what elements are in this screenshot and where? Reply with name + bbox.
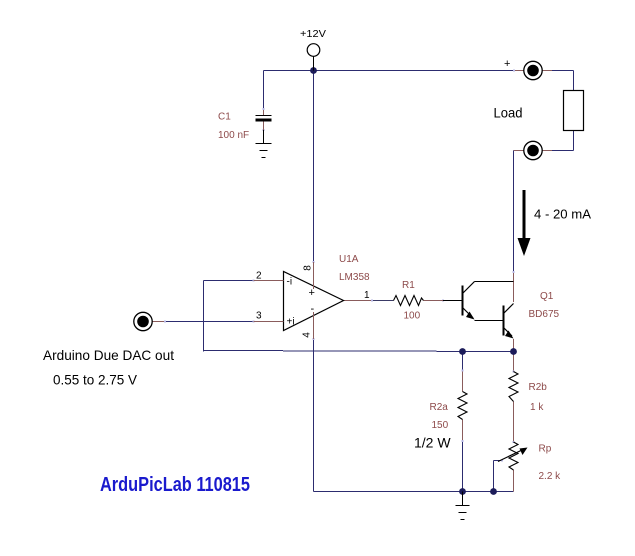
svg-text:BD675: BD675 [529, 309, 560, 320]
wire op-amp output to R1 [344, 300, 394, 302]
junction node emitter / R2b [510, 348, 517, 355]
junction node R2a / ground rail [459, 488, 466, 495]
svg-text:ArduPicLab 110815: ArduPicLab 110815 [100, 474, 250, 496]
title ArduPicLab 110815 [100, 474, 250, 496]
svg-text:8: 8 [302, 265, 313, 271]
wire load minus terminal to collector [514, 151, 525, 303]
svg-text:+: + [504, 58, 510, 70]
svg-text:-i: -i [287, 277, 293, 288]
resistor R2b [509, 372, 547, 414]
svg-text:R1: R1 [402, 280, 415, 291]
svg-text:LM358: LM358 [339, 272, 370, 283]
node label Arduino Due DAC out [43, 347, 174, 363]
wire top rail +12V [264, 70, 525, 72]
terminal load plus [504, 58, 542, 80]
wire bottom ground rail [314, 491, 514, 493]
pin 8 label [302, 265, 313, 271]
svg-text:1: 1 [364, 290, 370, 301]
ground (bottom rail) [456, 492, 470, 520]
resistor R1 [394, 280, 444, 322]
wire input to pin 3 [153, 321, 254, 323]
wire emitter to feedback node [513, 339, 515, 352]
pin 2 label [256, 271, 262, 282]
svg-text:Q1: Q1 [540, 291, 554, 302]
wire C1 drop [263, 71, 265, 116]
wire +12V rail to op-amp pin 8 [313, 71, 315, 263]
node label 0.55 to 2.75 V [53, 372, 138, 388]
arrow 4-20 mA [518, 190, 592, 256]
svg-text:100 nF: 100 nF [218, 130, 249, 141]
wire load plus terminal right [542, 71, 574, 91]
svg-text:1 k: 1 k [530, 402, 544, 413]
potentiometer Rp [498, 442, 561, 482]
svg-text:Load: Load [494, 105, 523, 121]
junction node R2a / feedback [459, 348, 466, 355]
wire Rp wiper to ground rail [494, 461, 503, 492]
transistor Q1 (Darlington pair) [443, 282, 560, 339]
terminal input DAC [134, 312, 152, 330]
resistor R2a [414, 392, 467, 451]
svg-text:R2a: R2a [430, 402, 449, 413]
pin 4 label [302, 332, 313, 338]
svg-text:4 - 20 mA: 4 - 20 mA [534, 207, 591, 222]
wire op-amp pin 4 to ground rail [313, 339, 315, 492]
wire Rp bottom [513, 470, 515, 492]
svg-text:+12V: +12V [300, 29, 326, 40]
ground (C1) [256, 130, 272, 158]
terminal load minus [524, 141, 542, 159]
svg-text:Rp: Rp [539, 444, 552, 455]
svg-text:150: 150 [432, 420, 449, 431]
svg-text:2.2 k: 2.2 k [539, 471, 562, 482]
svg-text:Arduino Due DAC out: Arduino Due DAC out [43, 347, 174, 363]
wire load bottom [542, 131, 574, 151]
svg-text:2: 2 [256, 271, 262, 282]
svg-text:4: 4 [302, 332, 313, 338]
op-amp U1A [254, 262, 344, 339]
pin 1 label [364, 290, 370, 301]
pin tick marks [164, 70, 515, 462]
svg-text:0.55 to 2.75 V: 0.55 to 2.75 V [53, 372, 138, 388]
power terminal +12V [300, 29, 326, 71]
junction node at +12V rail [310, 67, 317, 74]
pin 3 label [256, 311, 262, 322]
svg-text:-: - [311, 303, 315, 315]
wire R2a bottom [462, 420, 464, 492]
svg-text:U1A: U1A [339, 254, 359, 265]
svg-text:1/2 W: 1/2 W [414, 435, 451, 451]
wire feedback horizontal [204, 351, 514, 352]
designator U1A LM358 [339, 254, 370, 283]
svg-text:+i: +i [287, 317, 295, 328]
svg-text:3: 3 [256, 311, 262, 322]
wire R2a top [462, 352, 464, 392]
svg-text:R2b: R2b [529, 382, 548, 393]
svg-text:+: + [309, 287, 315, 299]
capacitor C1 [218, 112, 272, 142]
junction node wiper / ground rail [490, 488, 497, 495]
load resistor [494, 91, 584, 131]
wire R2b leads [513, 352, 515, 443]
svg-text:100: 100 [404, 311, 421, 322]
wire feedback pin 2 [204, 281, 254, 352]
svg-text:C1: C1 [218, 112, 231, 123]
